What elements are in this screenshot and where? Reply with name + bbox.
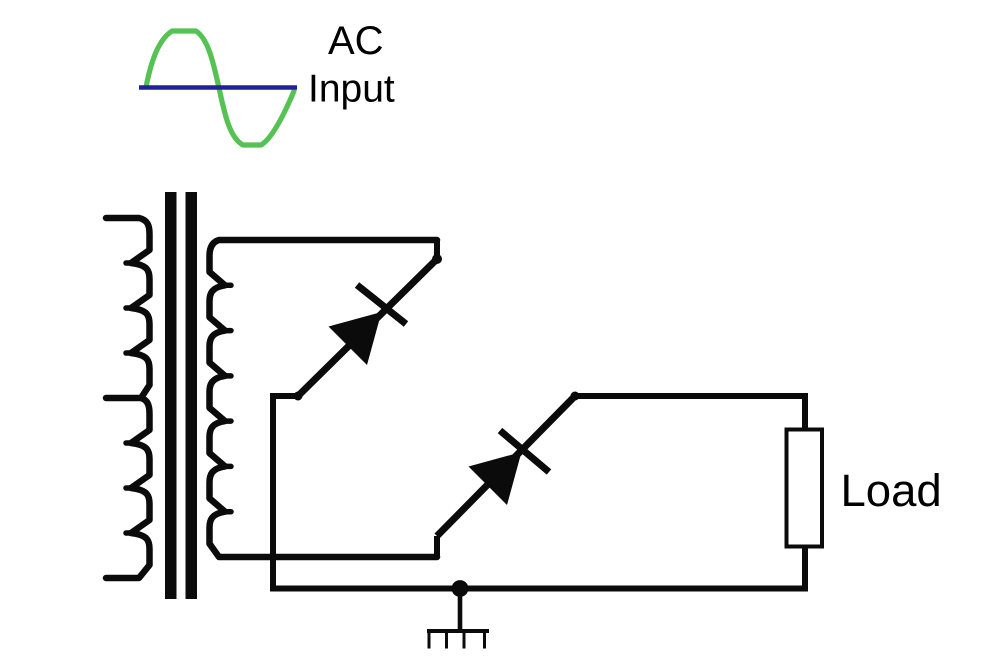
svg-text:AC: AC xyxy=(328,19,384,63)
svg-text:Load: Load xyxy=(841,465,942,516)
svg-text:Input: Input xyxy=(308,68,395,111)
